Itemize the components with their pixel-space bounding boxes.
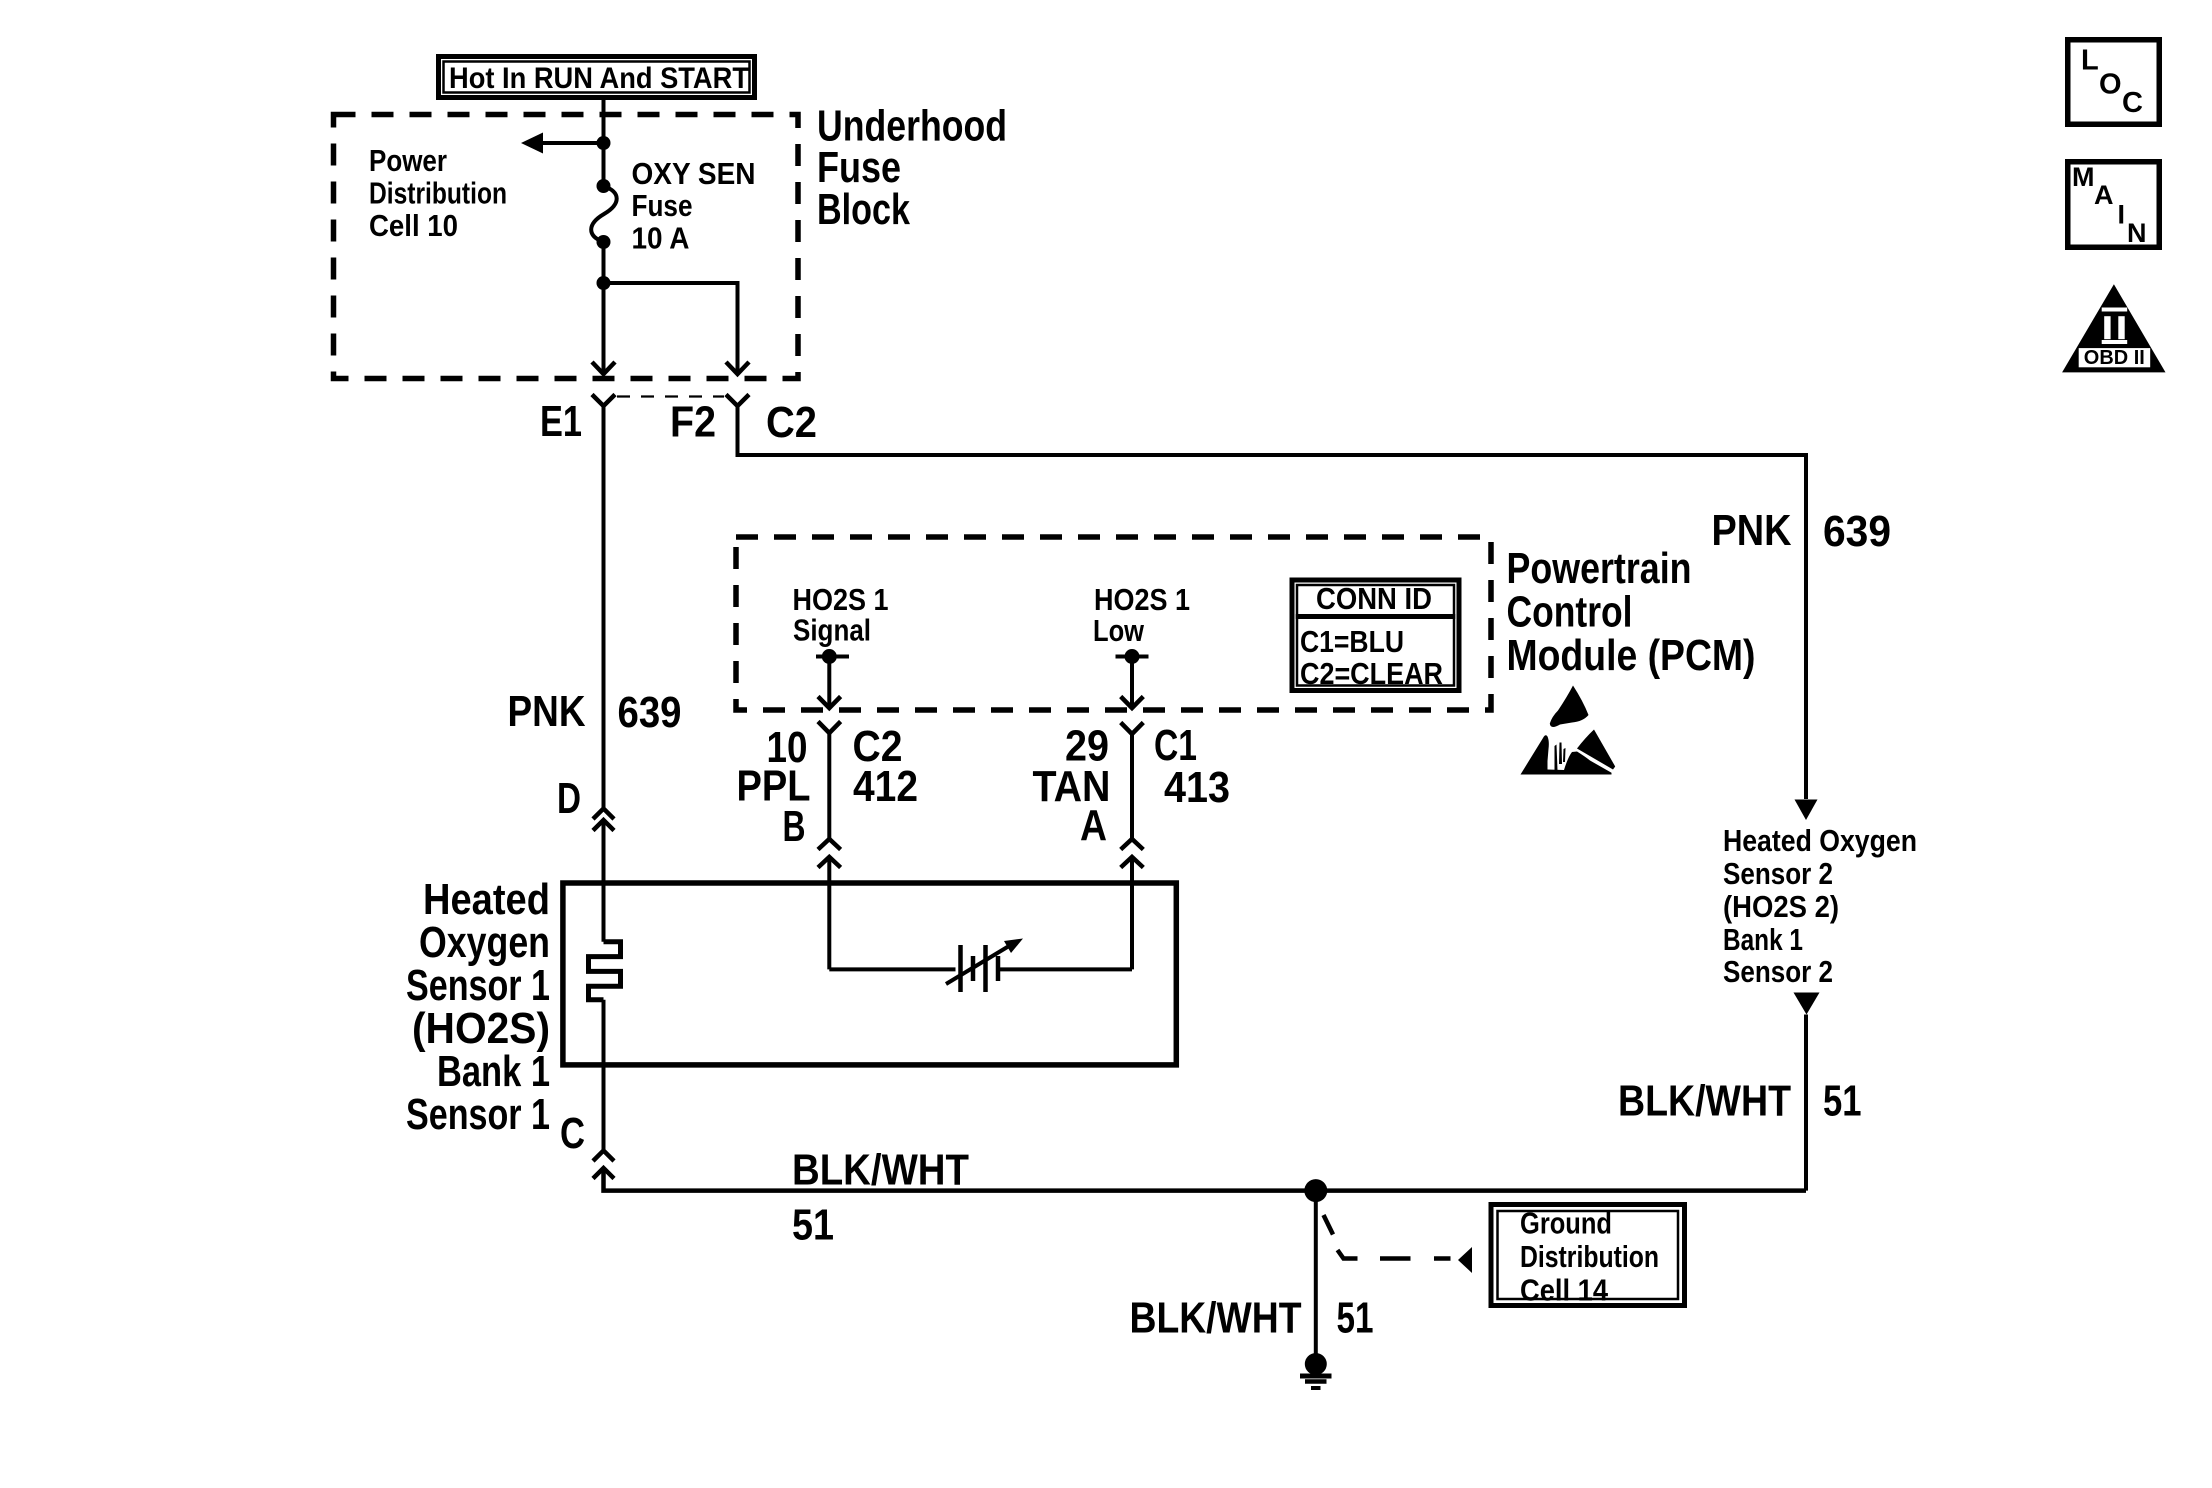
- svg-text:HO2S 1: HO2S 1: [1094, 582, 1190, 617]
- svg-text:M: M: [2072, 162, 2095, 192]
- svg-text:639: 639: [618, 688, 682, 737]
- svg-text:OXY SEN: OXY SEN: [632, 156, 756, 191]
- svg-text:CONN ID: CONN ID: [1316, 581, 1432, 616]
- svg-text:Fuse: Fuse: [632, 188, 693, 223]
- svg-text:PNK: PNK: [1712, 506, 1792, 555]
- svg-text:C2: C2: [766, 398, 817, 447]
- svg-text:Oxygen: Oxygen: [419, 918, 550, 967]
- svg-text:BLK/WHT: BLK/WHT: [1130, 1294, 1302, 1343]
- svg-text:F2: F2: [670, 398, 716, 447]
- svg-text:Module (PCM): Module (PCM): [1507, 631, 1756, 680]
- svg-text:C: C: [2122, 87, 2143, 119]
- svg-text:Distribution: Distribution: [369, 176, 507, 211]
- svg-text:Heated Oxygen: Heated Oxygen: [1723, 823, 1917, 858]
- svg-text:O: O: [2099, 69, 2122, 101]
- svg-text:639: 639: [1823, 507, 1891, 556]
- svg-text:Cell 10: Cell 10: [369, 208, 458, 243]
- svg-text:(HO2S): (HO2S): [412, 1004, 550, 1053]
- svg-text:BLK/WHT: BLK/WHT: [1618, 1077, 1791, 1126]
- svg-text:B: B: [783, 802, 806, 851]
- svg-text:BLK/WHT: BLK/WHT: [792, 1146, 969, 1195]
- svg-text:Block: Block: [817, 185, 910, 234]
- svg-text:Distribution: Distribution: [1520, 1239, 1659, 1274]
- svg-text:413: 413: [1164, 763, 1230, 812]
- svg-text:A: A: [1080, 801, 1107, 850]
- svg-text:A: A: [2094, 180, 2114, 210]
- svg-text:Sensor 1: Sensor 1: [406, 961, 550, 1010]
- svg-text:51: 51: [1823, 1077, 1862, 1126]
- svg-text:51: 51: [1337, 1294, 1374, 1343]
- svg-text:Control: Control: [1507, 588, 1633, 637]
- svg-text:Ground: Ground: [1520, 1206, 1612, 1241]
- svg-text:OBD II: OBD II: [2084, 347, 2145, 369]
- svg-text:Hot In RUN And START: Hot In RUN And START: [449, 62, 749, 95]
- svg-text:L: L: [2081, 45, 2099, 77]
- svg-text:Sensor 2: Sensor 2: [1723, 954, 1833, 989]
- svg-text:(HO2S 2): (HO2S 2): [1723, 889, 1839, 924]
- svg-text:C1=BLU: C1=BLU: [1300, 624, 1404, 659]
- svg-text:C: C: [560, 1109, 585, 1158]
- svg-text:PNK: PNK: [508, 687, 586, 736]
- svg-text:E1: E1: [540, 397, 582, 446]
- svg-text:Sensor 2: Sensor 2: [1723, 856, 1833, 891]
- svg-text:Low: Low: [1093, 613, 1145, 648]
- svg-text:Cell 14: Cell 14: [1520, 1273, 1609, 1308]
- svg-text:Heated: Heated: [423, 875, 550, 924]
- svg-text:Bank 1: Bank 1: [437, 1047, 550, 1096]
- svg-text:Bank 1: Bank 1: [1723, 922, 1803, 957]
- svg-text:I: I: [2118, 200, 2126, 230]
- svg-text:51: 51: [792, 1201, 834, 1250]
- svg-text:D: D: [557, 774, 581, 823]
- svg-text:Signal: Signal: [793, 613, 871, 648]
- svg-text:Power: Power: [369, 143, 447, 178]
- svg-text:C2=CLEAR: C2=CLEAR: [1300, 656, 1443, 691]
- svg-text:N: N: [2127, 218, 2147, 248]
- svg-text:Sensor 1: Sensor 1: [406, 1090, 550, 1139]
- svg-text:Powertrain: Powertrain: [1507, 544, 1692, 593]
- svg-text:412: 412: [853, 762, 918, 811]
- svg-text:10 A: 10 A: [632, 221, 690, 256]
